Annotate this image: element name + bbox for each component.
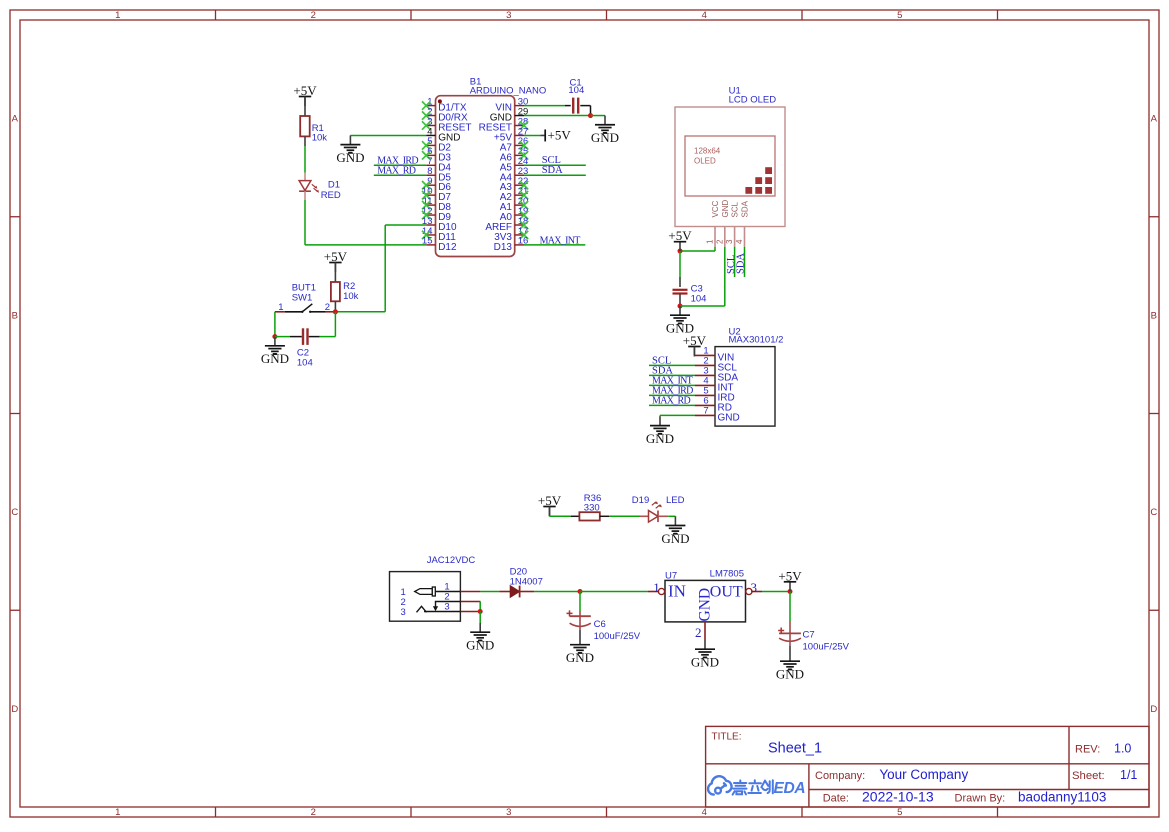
svg-text:+5V: +5V: [683, 333, 707, 348]
svg-text:SCL: SCL: [731, 201, 740, 217]
svg-text:A: A: [1151, 114, 1158, 125]
svg-text:GND: GND: [646, 431, 674, 446]
svg-text:SDA: SDA: [542, 165, 563, 176]
svg-text:TITLE:: TITLE:: [712, 732, 742, 743]
svg-text:1: 1: [115, 807, 120, 818]
svg-text:104: 104: [568, 85, 584, 96]
svg-text:LCD OLED: LCD OLED: [729, 95, 777, 106]
svg-text:C6: C6: [594, 619, 606, 630]
svg-text:baodanny1103: baodanny1103: [1018, 790, 1106, 805]
svg-text:10k: 10k: [343, 291, 359, 302]
svg-text:RED: RED: [321, 190, 341, 201]
svg-text:Sheet:: Sheet:: [1072, 770, 1105, 782]
svg-text:+5V: +5V: [538, 493, 562, 508]
svg-text:GND: GND: [721, 200, 730, 218]
svg-text:A: A: [12, 114, 19, 125]
svg-text:D13: D13: [494, 242, 513, 253]
svg-text:Drawn By:: Drawn By:: [955, 793, 1006, 805]
svg-text:GND: GND: [336, 150, 364, 165]
svg-text:1N4007: 1N4007: [510, 576, 543, 587]
svg-text:3: 3: [751, 580, 758, 595]
svg-text:LM7805: LM7805: [710, 569, 744, 580]
svg-text:100uF/25V: 100uF/25V: [594, 631, 641, 642]
svg-text:104: 104: [297, 357, 313, 368]
svg-text:JAC12VDC: JAC12VDC: [427, 555, 476, 566]
svg-text:OUT: OUT: [710, 584, 743, 601]
svg-text:MAX_RD: MAX_RD: [377, 166, 416, 177]
svg-text:2: 2: [311, 10, 316, 21]
svg-text:100uF/25V: 100uF/25V: [803, 641, 850, 652]
svg-text:D: D: [11, 704, 18, 715]
svg-text:C7: C7: [803, 630, 815, 641]
svg-text:+5V: +5V: [293, 83, 317, 98]
svg-text:GND: GND: [718, 412, 740, 423]
svg-text:GND: GND: [466, 638, 494, 653]
svg-text:OLED: OLED: [694, 157, 716, 166]
svg-text:GND: GND: [566, 650, 594, 665]
svg-text:+5V: +5V: [668, 228, 692, 243]
svg-text:Your Company: Your Company: [879, 767, 968, 782]
svg-text:GND: GND: [776, 667, 804, 682]
svg-text:B: B: [12, 310, 18, 321]
svg-text:MAX30101/2: MAX30101/2: [729, 335, 784, 346]
svg-text:5: 5: [897, 807, 902, 818]
svg-text:10k: 10k: [312, 133, 328, 144]
svg-text:D: D: [1150, 704, 1157, 715]
svg-text:1: 1: [706, 239, 715, 244]
svg-text:4: 4: [702, 807, 707, 818]
svg-text:MAX_INT: MAX_INT: [540, 235, 581, 246]
svg-text:C: C: [11, 507, 18, 518]
svg-text:Company:: Company:: [815, 770, 865, 782]
svg-text:1: 1: [653, 580, 660, 595]
svg-text:REV:: REV:: [1075, 744, 1100, 756]
svg-text:SDA: SDA: [736, 253, 747, 274]
svg-text:MAX_RD: MAX_RD: [652, 395, 691, 406]
svg-text:3: 3: [506, 807, 511, 818]
svg-text:SW1: SW1: [292, 292, 313, 303]
svg-text:128x64: 128x64: [694, 147, 721, 156]
svg-text:2022-10-13: 2022-10-13: [862, 789, 934, 805]
svg-text:GND: GND: [661, 531, 689, 546]
svg-text:330: 330: [584, 503, 600, 514]
svg-text:1/1: 1/1: [1120, 768, 1137, 782]
svg-text:GND: GND: [591, 130, 619, 145]
svg-text:3: 3: [401, 607, 406, 618]
svg-text:3: 3: [725, 239, 734, 244]
svg-text:C: C: [1150, 507, 1157, 518]
svg-text:2: 2: [695, 625, 702, 640]
svg-text:EDA: EDA: [774, 780, 806, 797]
svg-text:GND: GND: [697, 588, 714, 622]
svg-text:ARDUINO_NANO: ARDUINO_NANO: [470, 85, 547, 96]
svg-text:5: 5: [897, 10, 902, 21]
svg-text:4: 4: [735, 239, 744, 244]
svg-text:GND: GND: [261, 351, 289, 366]
svg-text:D12: D12: [438, 242, 457, 253]
svg-text:1: 1: [115, 10, 120, 21]
svg-text:2: 2: [325, 302, 330, 313]
svg-text:1: 1: [278, 302, 283, 313]
svg-text:LED: LED: [666, 495, 685, 506]
svg-text:B: B: [1151, 310, 1157, 321]
svg-text:2: 2: [715, 239, 724, 244]
svg-text:VCC: VCC: [711, 200, 720, 217]
svg-text:Sheet_1: Sheet_1: [768, 741, 822, 757]
svg-text:+5V: +5V: [548, 127, 572, 142]
svg-text:SDA: SDA: [741, 200, 750, 217]
svg-text:Date:: Date:: [823, 793, 849, 805]
svg-text:7: 7: [703, 406, 708, 417]
svg-text:IN: IN: [668, 582, 686, 601]
svg-text:4: 4: [702, 10, 707, 21]
svg-text:+5V: +5V: [324, 249, 348, 264]
svg-text:104: 104: [691, 294, 707, 305]
svg-text:GND: GND: [691, 655, 719, 670]
svg-text:+5V: +5V: [778, 568, 802, 583]
svg-text:3: 3: [506, 10, 511, 21]
svg-text:2: 2: [311, 807, 316, 818]
svg-text:1.0: 1.0: [1114, 742, 1131, 756]
svg-text:D19: D19: [632, 495, 649, 506]
